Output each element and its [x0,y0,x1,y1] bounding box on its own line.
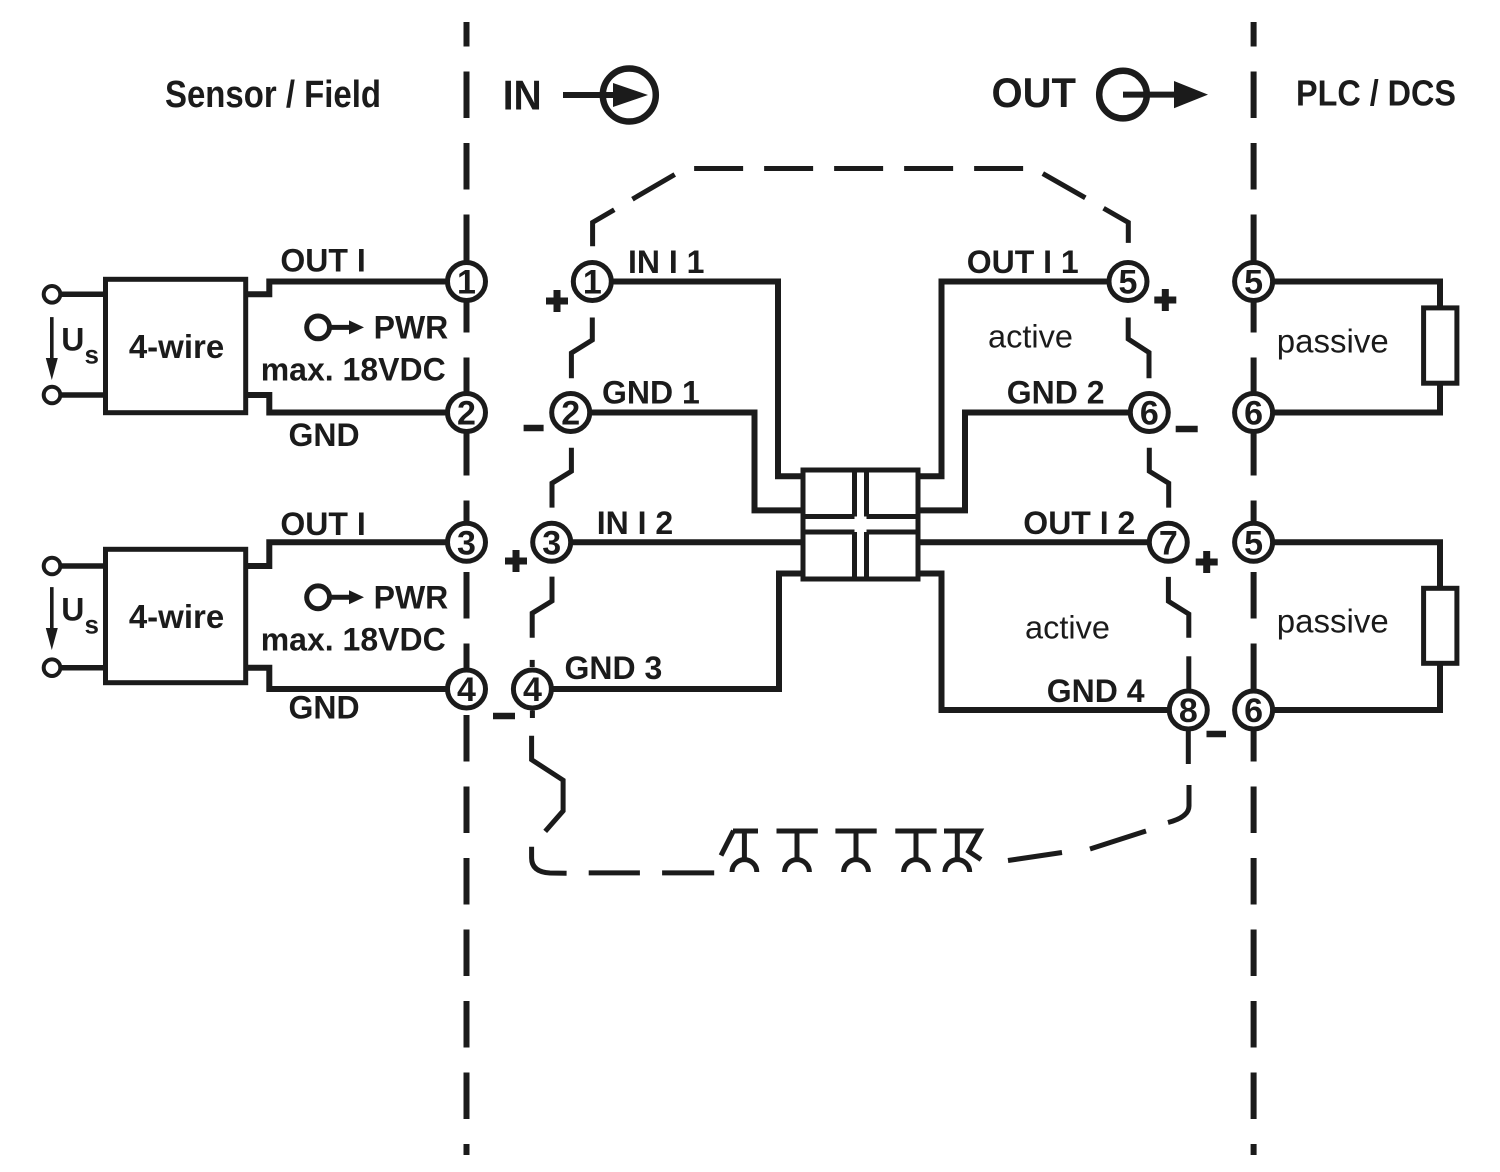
right loop 2 wire [1273,542,1440,710]
dashed isolator outline between terminals 5 and 6 [1128,318,1149,379]
terminal 4 field [448,670,486,709]
DIN rail contact symbol 2 [777,831,818,872]
load resistor 2 [1424,588,1457,663]
load resistor 1 [1424,308,1457,383]
svg-text:6: 6 [1140,395,1159,433]
svg-text:7: 7 [1159,524,1178,562]
wire OUT I upper [246,282,449,295]
wire GND 4 [920,574,1170,711]
wire lower sensor plus lead [60,563,106,569]
svg-text:5: 5 [1244,264,1263,302]
polarity plus at terminal 5 [1154,289,1176,311]
svg-text:passive: passive [1277,603,1389,640]
dashed isolator outline between terminals 2 and 3 [552,448,571,508]
wire upper sensor minus lead [60,392,106,398]
polarity plus at terminal 7 [1196,551,1218,573]
svg-text:4-wire: 4-wire [129,328,224,365]
isolator DC/DC converter block [803,470,918,579]
svg-text:PLC / DCS: PLC / DCS [1296,72,1456,113]
terminal 6 PLC lower [1235,691,1273,730]
wire OUT I lower [246,542,449,566]
svg-text:IN: IN [503,72,542,119]
svg-text:Sensor / Field: Sensor / Field [165,74,381,116]
wire OUT I 2 [920,539,1150,545]
upper sensor terminal circle minus [44,387,61,404]
svg-text:3: 3 [457,524,476,562]
terminal 5 isolator output [1109,263,1147,302]
wire GND 1 [591,413,802,511]
svg-text:OUT I 2: OUT I 2 [1023,505,1135,541]
terminal 6 PLC upper [1235,394,1273,433]
svg-text:IN I 1: IN I 1 [628,244,704,280]
svg-text:GND 2: GND 2 [1007,374,1105,410]
DIN rail contact symbol 1 [721,831,758,872]
4-wire transmitter box lower [106,549,246,682]
svg-text:GND 3: GND 3 [565,650,663,686]
dashed isolator outline between terminals 7 and 8 [1168,577,1188,689]
svg-text:3: 3 [542,524,561,562]
terminal 1 isolator input [573,263,611,302]
DIN rail contact symbol 3 [835,831,876,872]
svg-text:4: 4 [457,671,476,709]
terminal 4 isolator input [513,670,551,709]
IN flow icon [563,69,656,122]
svg-text:GND: GND [289,417,360,453]
terminal 6 isolator output [1130,394,1168,433]
right loop 1 wire [1273,282,1440,413]
svg-text:5: 5 [1119,264,1138,302]
wire upper sensor plus lead [60,292,106,298]
label Us upper [61,322,99,370]
wire IN I 1 [611,282,801,477]
svg-text:PWR: PWR [374,580,449,616]
svg-text:1: 1 [457,264,476,302]
polarity minus at terminal 8 [1207,731,1227,738]
terminal 5 PLC upper [1235,263,1273,302]
dashed isolator outline between terminals 3 and 4 [532,577,552,667]
terminal 7 isolator output [1149,523,1187,562]
label Us lower [61,592,99,640]
field side dashed separator line [464,22,470,1155]
svg-text:GND 1: GND 1 [602,374,700,410]
svg-text:PWR: PWR [374,310,449,346]
terminal 1 field [448,263,486,302]
svg-text:6: 6 [1244,395,1263,433]
svg-text:8: 8 [1179,692,1198,730]
svg-text:s: s [85,610,99,640]
svg-text:active: active [988,318,1073,354]
svg-text:max. 18VDC: max. 18VDC [261,622,446,658]
polarity minus at terminal 2 [524,425,544,432]
dashed isolator outline between terminals 6 and 7 [1149,448,1168,508]
upper sensor terminal circle plus [44,286,61,303]
terminal 2 isolator input [552,394,590,433]
svg-text:s: s [85,340,99,370]
4-wire transmitter box upper [106,279,246,412]
dashed isolator outline bottom right [1008,731,1189,861]
svg-text:2: 2 [561,395,580,433]
dashed isolator outline top arc [593,169,1129,247]
wire GND 3 [551,574,801,690]
lower sensor terminal circle plus [44,558,61,575]
svg-text:5: 5 [1244,524,1263,562]
DIN rail contact symbol 4 [895,831,936,872]
wire IN I 2 [571,539,802,545]
wire OUT I 1 [920,282,1110,477]
svg-text:IN I 2: IN I 2 [597,505,673,541]
polarity minus at terminal 6 [1176,426,1198,433]
svg-text:4: 4 [523,671,542,709]
svg-text:6: 6 [1244,692,1263,730]
polarity minus at terminal 4 [493,713,515,720]
Us supply arrow lower [46,587,58,650]
polarity plus at terminal 1 [546,290,568,312]
terminal 2 field [448,394,486,433]
terminal 8 isolator output [1169,691,1207,730]
dashed isolator outline between terminals 1 and 2 [571,318,592,379]
svg-text:OUT: OUT [992,69,1077,116]
PLC side dashed separator line [1251,22,1257,1155]
lower sensor terminal circle minus [44,659,61,676]
Us supply arrow upper [46,317,58,380]
svg-text:2: 2 [457,395,476,433]
PWR icon upper [307,316,364,339]
terminal 3 isolator input [533,523,571,562]
svg-text:active: active [1025,609,1110,645]
svg-text:OUT I: OUT I [280,506,365,542]
terminal 3 field [448,523,486,562]
PWR icon lower [307,586,364,609]
terminal 5 PLC lower [1235,523,1273,562]
svg-text:1: 1 [583,264,602,302]
dashed isolator outline bottom left [532,711,715,874]
svg-text:max. 18VDC: max. 18VDC [261,352,446,388]
svg-text:OUT I: OUT I [280,242,365,278]
wire GND lower [246,668,449,689]
wire GND upper [246,395,449,413]
svg-text:4-wire: 4-wire [129,598,224,635]
svg-text:U: U [61,322,84,358]
wire lower sensor minus lead [60,665,106,671]
polarity plus at terminal 3 [505,550,527,572]
svg-text:U: U [61,592,84,628]
OUT flow icon [1099,71,1208,119]
DIN rail contact symbol 5 [944,831,981,872]
svg-text:OUT I 1: OUT I 1 [967,244,1079,280]
svg-text:GND 4: GND 4 [1047,673,1145,709]
svg-text:passive: passive [1277,323,1389,360]
wire GND 2 [920,413,1131,511]
svg-text:GND: GND [289,690,360,726]
